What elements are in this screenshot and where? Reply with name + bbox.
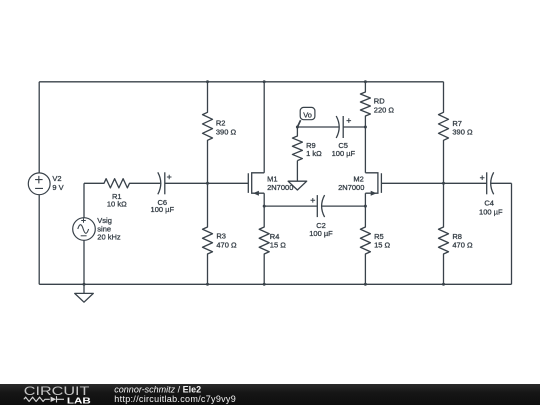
node Vo junction — [296, 126, 299, 129]
wire R7 node to C4 — [444, 182, 487, 184]
svg-text:M2: M2 — [353, 174, 363, 183]
resistor R5 — [360, 206, 370, 284]
junction bottom rail / R8 — [442, 283, 445, 286]
svg-text:C4: C4 — [484, 199, 494, 208]
svg-text:470 Ω: 470 Ω — [216, 241, 237, 250]
svg-text:R8: R8 — [452, 232, 462, 241]
svg-text:Vo: Vo — [303, 111, 312, 120]
svg-text:R7: R7 — [452, 119, 462, 128]
svg-text:LAB: LAB — [67, 395, 91, 405]
junction top rail / RD — [364, 80, 367, 83]
svg-text:390 Ω: 390 Ω — [452, 128, 473, 137]
wire left branch lower — [38, 195, 40, 285]
svg-text:R3: R3 — [216, 231, 226, 240]
svg-text:http://circuitlab.com/c7y9vy9: http://circuitlab.com/c7y9vy9 — [114, 394, 236, 404]
footer bar — [0, 384, 540, 405]
wire bottom rail — [39, 283, 511, 285]
svg-text:R2: R2 — [216, 118, 226, 127]
svg-text:2N7000: 2N7000 — [267, 183, 293, 192]
svg-text:470 Ω: 470 Ω — [452, 241, 473, 250]
wire Vsig top lead — [83, 183, 85, 217]
wire input row C6 to node — [165, 182, 208, 184]
junction M2 source / R5 — [364, 205, 367, 208]
wire M2 source lead — [364, 193, 366, 206]
wire source row left — [264, 205, 317, 207]
resistor R8 — [439, 183, 449, 284]
wire Vsig bottom lead — [83, 240, 85, 284]
svg-text:R4: R4 — [270, 232, 280, 241]
wire C5 to RD node — [343, 126, 365, 128]
resistor R2 — [203, 82, 213, 184]
svg-text:220 Ω: 220 Ω — [374, 105, 395, 114]
svg-text:R5: R5 — [374, 232, 384, 241]
svg-text:10 kΩ: 10 kΩ — [107, 200, 127, 209]
transistor M2 2N7000 — [365, 172, 381, 194]
svg-text:390 Ω: 390 Ω — [216, 128, 237, 137]
wire M1 source lead — [263, 193, 265, 206]
plus C5 — [347, 118, 352, 123]
wire M1 drain lead — [263, 82, 265, 173]
capacitor C6 — [164, 172, 166, 194]
plus C6 — [167, 175, 172, 180]
junction bottom rail / Vsig — [83, 283, 86, 286]
junction bottom rail / R3 — [206, 283, 209, 286]
svg-text:2N7000: 2N7000 — [338, 183, 364, 192]
plus C2 — [311, 198, 316, 203]
logo resistor+diode squiggle — [24, 397, 50, 401]
resistor R3 — [203, 183, 213, 284]
wire M2 gate to R7 node — [381, 182, 443, 184]
svg-text:100 µF: 100 µF — [309, 229, 333, 238]
wire M2 drain lead — [364, 127, 366, 173]
junction M1 source / R4 — [263, 205, 266, 208]
svg-text:100 µF: 100 µF — [151, 205, 175, 214]
voltage source Vsig — [73, 218, 96, 241]
resistor RD — [360, 82, 370, 127]
voltage source V2 — [28, 173, 50, 195]
svg-text:15 Ω: 15 Ω — [374, 241, 390, 250]
svg-text:100 µF: 100 µF — [479, 207, 503, 216]
svg-text:20 kHz: 20 kHz — [97, 233, 121, 242]
capacitor C4 — [486, 172, 488, 194]
wire right branch down — [511, 183, 513, 284]
wire source row right — [322, 205, 366, 207]
junction bottom rail / R4 — [263, 283, 266, 286]
plus C4 — [480, 175, 485, 180]
svg-text:100 µF: 100 µF — [332, 149, 356, 158]
resistor R9 — [292, 127, 302, 161]
resistor R4 — [259, 206, 269, 284]
transistor M1 2N7000 — [248, 172, 264, 194]
wire Vo node to C5 — [297, 126, 339, 128]
wire C4 to right corner — [491, 182, 512, 184]
junction top rail / M1 drain — [263, 80, 266, 83]
svg-text:V2: V2 — [52, 174, 61, 183]
svg-text:RD: RD — [374, 96, 385, 105]
wire top rail — [39, 81, 443, 83]
junction top rail / R2 — [206, 80, 209, 83]
svg-text:connor-schmitz / Ele2: connor-schmitz / Ele2 — [114, 384, 201, 394]
wire M1 gate lead — [208, 182, 249, 184]
resistor R7 — [439, 82, 449, 184]
capacitor C2 — [316, 195, 318, 217]
junction gate row / R2 R3 — [206, 182, 209, 185]
junction bottom rail / R5 — [364, 283, 367, 286]
capacitor C5 — [342, 116, 344, 138]
svg-text:15 Ω: 15 Ω — [270, 241, 286, 250]
junction M2 gate / R7 R8 — [442, 182, 445, 185]
svg-text:9 V: 9 V — [52, 183, 63, 192]
ground main — [75, 284, 94, 302]
node Vo flag — [297, 120, 300, 127]
svg-text:M1: M1 — [267, 174, 277, 183]
junction RD / C5 / M2 drain — [364, 126, 367, 129]
svg-text:1 kΩ: 1 kΩ — [306, 149, 322, 158]
wire left branch upper — [38, 82, 40, 173]
resistor R1 — [84, 179, 160, 188]
ground R9 — [288, 161, 307, 190]
